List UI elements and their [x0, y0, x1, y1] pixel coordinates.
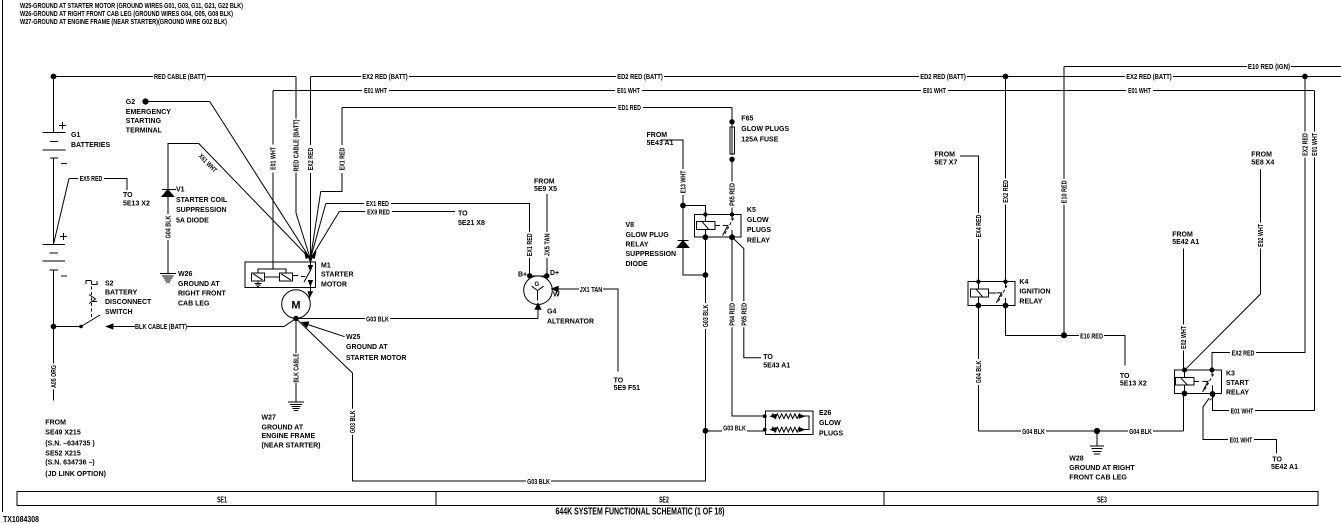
svg-text:TERMINAL: TERMINAL [126, 127, 163, 134]
wire V8 branch upper [682, 206, 684, 241]
svg-text:STARTER COIL: STARTER COIL [176, 197, 228, 204]
node alternator bottom [535, 303, 541, 309]
node D+ [545, 274, 549, 278]
glow plug series link [804, 416, 810, 429]
M1 solenoid coil 1 [252, 273, 265, 281]
M1 coil2 stub [293, 275, 298, 277]
svg-text:G04 BLK: G04 BLK [165, 216, 172, 239]
svg-text:RELAY: RELAY [1019, 298, 1042, 305]
fuse F65 body [730, 127, 735, 154]
glow plug element 2 [771, 427, 804, 432]
battery G1 cell1 [43, 132, 66, 158]
svg-text:TO: TO [123, 192, 133, 199]
svg-text:E10 RED: E10 RED [1080, 333, 1103, 340]
M1 motor arrow to circle [308, 292, 312, 297]
M1 switch arrow lower [308, 281, 312, 286]
wire G03 BLK diagonal down [296, 319, 353, 374]
svg-text:W25: W25 [346, 334, 361, 341]
label E01 WHT k3 b [1228, 435, 1254, 444]
svg-text:TX1084308: TX1084308 [3, 514, 39, 524]
relay K5 coil stub [715, 225, 720, 227]
wire K3 coil to G04 BLK [1182, 393, 1184, 431]
node W28 junction [1094, 428, 1099, 433]
svg-text:GLOW PLUG: GLOW PLUG [626, 232, 670, 239]
label EX2 RED right [1301, 132, 1310, 158]
svg-text:F65: F65 [741, 116, 753, 123]
wire E01 WHT drop to starter [272, 91, 274, 269]
svg-text:E01 WHT: E01 WHT [1312, 133, 1319, 156]
svg-text:V8: V8 [626, 222, 635, 229]
svg-text:G1: G1 [71, 132, 80, 139]
svg-text:FROM: FROM [534, 179, 555, 186]
svg-text:G04 BLK: G04 BLK [1022, 429, 1045, 436]
label G03 BLK starter [365, 314, 390, 323]
label G03 BLK k5 [701, 303, 710, 329]
diode V1 [162, 190, 176, 197]
wire G03 BLK from K5 [704, 237, 706, 481]
wire RED CABLE vertical [295, 77, 297, 214]
svg-text:E10 RED: E10 RED [1062, 180, 1069, 203]
ground W27 [288, 402, 304, 411]
svg-text:(NEAR STARTER): (NEAR STARTER) [262, 442, 321, 449]
node K5 coil bottom [703, 235, 708, 240]
switch S2 hook [86, 281, 97, 285]
wire RED CABLE diagonal [296, 213, 310, 259]
relay K5 switch bottom stub [731, 230, 733, 237]
svg-text:RELAY: RELAY [747, 238, 770, 245]
label X61 WHT diag [195, 150, 221, 176]
svg-text:G04 BLK: G04 BLK [1129, 429, 1152, 436]
relay K3 coil [1176, 378, 1195, 386]
diode V8 [677, 241, 689, 248]
wire into fuse [731, 122, 733, 155]
svg-text:DISCONNECT: DISCONNECT [105, 299, 152, 306]
wire EX9 RED diagonal [310, 212, 339, 260]
svg-text:TO: TO [1120, 373, 1130, 380]
svg-text:P64 RED: P64 RED [730, 303, 737, 326]
svg-text:M1: M1 [321, 263, 331, 270]
label G04 BLK left [1021, 427, 1046, 436]
wire ED1 RED rail [342, 107, 732, 109]
label EX2 RED k3 [1230, 348, 1256, 357]
svg-text:G03 BLK: G03 BLK [723, 426, 746, 433]
wire V1 to ground [167, 197, 169, 274]
wire G03 BLK bottom run [353, 373, 706, 481]
wire G04 BLK from K4 [978, 306, 1183, 432]
svg-text:P65 RED: P65 RED [730, 183, 737, 206]
wire P65 RED out [732, 237, 761, 358]
label G04 BLK k4 [974, 359, 983, 385]
wire E01 WHT lower from K3 [1203, 398, 1277, 454]
starter fan-in arrowheads cluster [312, 252, 317, 259]
svg-text:STARTING: STARTING [126, 118, 162, 125]
relay K5 coil [697, 221, 716, 229]
svg-text:EX2 RED: EX2 RED [1003, 180, 1010, 203]
label BLK CABLE w27 [292, 353, 301, 383]
label JX5 TAN alt [542, 232, 551, 258]
label E13 WHT [679, 169, 688, 195]
svg-text:START: START [1226, 380, 1250, 387]
svg-text:5E42 A1: 5E42 A1 [1271, 464, 1298, 471]
svg-text:ENGINE FRAME: ENGINE FRAME [262, 433, 316, 440]
wire E01 WHT right drop [1213, 91, 1315, 411]
svg-text:G03 BLK: G03 BLK [350, 410, 357, 433]
label EX2 RED k4 [1001, 178, 1010, 204]
wire V1 top [168, 144, 199, 190]
M1 solenoid coil 2 [279, 273, 292, 281]
glow plug element 1 [771, 414, 804, 419]
svg-text:E01 WHT: E01 WHT [1231, 408, 1254, 415]
svg-text:TO: TO [763, 354, 773, 361]
relay K4 switch top stub [1005, 282, 1007, 288]
label BLK CABLE (BATT) [135, 322, 187, 331]
svg-text:5A DIODE: 5A DIODE [176, 218, 209, 225]
relay K5 switch blade dashed [724, 218, 734, 236]
label ED2 RED (BATT) [616, 72, 664, 81]
node E10 RED junction [1061, 333, 1066, 338]
svg-text:JX5 TAN: JX5 TAN [544, 233, 551, 256]
wire EX2 RED drop to starter [309, 77, 311, 260]
switch S2 blade [81, 315, 100, 327]
svg-text:BLK CABLE: BLK CABLE [294, 353, 301, 382]
svg-text:G03 BLK: G03 BLK [703, 305, 710, 328]
svg-text:FROM: FROM [1251, 152, 1272, 159]
svg-text:K4: K4 [1019, 279, 1028, 286]
svg-text:EX5 RED: EX5 RED [80, 176, 103, 183]
svg-text:SE49 X215: SE49 X215 [45, 430, 81, 437]
battery G1 minus sign [61, 162, 67, 164]
wire E10 RED vertical [1063, 67, 1065, 336]
node fuse top [730, 120, 734, 124]
switch S2 linkage dashed [91, 281, 93, 318]
svg-text:E26: E26 [819, 410, 832, 417]
svg-text:RIGHT FRONT: RIGHT FRONT [178, 291, 227, 298]
label EX1 RED alt [525, 232, 534, 258]
svg-text:GLOW PLUGS: GLOW PLUGS [741, 126, 789, 133]
label JX1 TAN [579, 285, 603, 294]
M1 bracket feed [272, 262, 274, 269]
label E10 RED vert [1060, 179, 1069, 205]
node rail dot K3 [1303, 74, 1308, 79]
svg-text:E01 WHT: E01 WHT [1128, 88, 1151, 95]
wire X61 WHT diagonal [199, 144, 311, 260]
footer section box [17, 492, 1318, 506]
wire EX2 RED (BATT) rail [310, 76, 1341, 78]
svg-text:GROUND AT: GROUND AT [262, 425, 304, 432]
wire V8 branch lower [683, 248, 705, 276]
svg-text:EX2 RED (BATT): EX2 RED (BATT) [1126, 74, 1172, 81]
M1 switch arrow upper [308, 266, 312, 271]
starter motor M1 box [245, 262, 315, 287]
label G04 BLK right [1128, 427, 1153, 436]
svg-text:GROUND AT: GROUND AT [178, 281, 220, 288]
svg-text:E01 WHT: E01 WHT [923, 88, 946, 95]
relay K5 switch tick [723, 226, 728, 236]
node K4 switch bottom [1003, 303, 1008, 308]
svg-text:G4: G4 [547, 309, 556, 316]
relay K4 box [968, 282, 1015, 306]
label EX2 RED (BATT) [361, 72, 409, 81]
wire EX1 RED to alternator [326, 204, 530, 276]
label RED CABLE (BATT) [153, 72, 207, 81]
svg-text:E10 RED (IGN): E10 RED (IGN) [1248, 64, 1290, 71]
svg-text:5E8 X4: 5E8 X4 [1251, 160, 1274, 167]
svg-text:RELAY: RELAY [626, 242, 649, 249]
svg-text:S2: S2 [105, 280, 114, 287]
label E01 WHT vert [269, 145, 278, 173]
svg-text:EX1 RED: EX1 RED [340, 148, 347, 171]
svg-text:G03 BLK: G03 BLK [527, 479, 550, 486]
svg-text:EX2 RED: EX2 RED [1232, 351, 1255, 358]
svg-text:K5: K5 [747, 207, 756, 214]
svg-text:D+: D+ [550, 270, 559, 277]
wire alternator ground lead [537, 305, 539, 319]
label ED2 RED (BATT) 2 [919, 72, 967, 81]
wire P65 RED fuse to K5 [731, 159, 733, 214]
svg-text:5E9 X5: 5E9 X5 [534, 186, 557, 193]
svg-text:RED CABLE (BATT): RED CABLE (BATT) [294, 120, 301, 172]
label P65 RED out [739, 301, 748, 327]
label EX1 RED h [364, 199, 391, 208]
svg-text:TO: TO [1272, 457, 1282, 464]
node fuse bottom [730, 157, 734, 161]
svg-text:W27: W27 [262, 415, 277, 422]
label E10 RED [1079, 331, 1104, 340]
svg-text:E01 WHT: E01 WHT [271, 147, 278, 170]
wire EX2 RED right drop [1212, 77, 1305, 371]
svg-text:ALTERNATOR: ALTERNATOR [547, 318, 594, 325]
M1 switch upper stub [309, 262, 311, 267]
svg-text:SWITCH: SWITCH [105, 309, 133, 316]
label EX5 RED [78, 174, 104, 183]
svg-text:STARTER MOTOR: STARTER MOTOR [346, 355, 406, 362]
node K3 switch bottom [1210, 392, 1215, 397]
svg-text:GLOW: GLOW [747, 217, 769, 224]
wire E02 WHT from 5E42 [1183, 249, 1185, 371]
svg-text:FROM: FROM [647, 132, 668, 139]
svg-text:EMERGENCY: EMERGENCY [126, 109, 171, 116]
svg-text:E02 WHT: E02 WHT [1181, 326, 1188, 349]
ground W26 [160, 274, 176, 283]
svg-text:EX2 RED: EX2 RED [1303, 133, 1310, 156]
svg-text:E13 WHT: E13 WHT [681, 170, 688, 193]
svg-text:SE2: SE2 [659, 496, 669, 505]
svg-text:5E21 X8: 5E21 X8 [458, 220, 485, 227]
footer labels [3, 496, 1107, 524]
wire E02 WHT from 5E8 [1185, 169, 1261, 370]
label G03 BLK plug [722, 423, 747, 432]
M1 switch lower stub [309, 284, 311, 292]
relay K5 switch top stub [731, 215, 733, 221]
node G03 junction at glow plugs [703, 428, 708, 433]
label E01 WHT b [615, 86, 642, 95]
relay K4 coil [971, 289, 989, 297]
switch S2 chevron [89, 295, 97, 304]
node K3 top terminals [1183, 368, 1187, 372]
svg-text:GROUND AT RIGHT: GROUND AT RIGHT [1069, 465, 1135, 472]
svg-text:W: W [553, 292, 560, 299]
node K3 coil bottom [1182, 391, 1187, 396]
node K5 terminals top [704, 213, 707, 216]
svg-text:SE3: SE3 [1097, 496, 1107, 505]
svg-text:FROM: FROM [934, 152, 955, 159]
svg-text:P65 RED: P65 RED [741, 303, 748, 326]
svg-text:BLK CABLE (BATT): BLK CABLE (BATT) [135, 324, 187, 331]
svg-text:TO: TO [458, 211, 468, 218]
svg-text:MOTOR: MOTOR [321, 282, 347, 289]
svg-text:EX4 RED: EX4 RED [976, 215, 983, 238]
switch S2 pivot [80, 325, 83, 328]
wire A05 ORG drop [53, 327, 55, 401]
label EX9 RED h [365, 207, 392, 216]
alternator G and Y symbol [532, 286, 544, 300]
svg-text:B+: B+ [518, 272, 527, 279]
terminal G2 [143, 99, 148, 104]
svg-text:G: G [535, 282, 540, 288]
node K5 coil return junction [703, 273, 708, 278]
svg-text:644K SYSTEM FUNCTIONAL SCHEMAT: 644K SYSTEM FUNCTIONAL SCHEMATIC (1 OF 1… [556, 507, 725, 518]
wire G2 lead [146, 101, 210, 103]
M1 switch tick [301, 276, 305, 278]
svg-text:5E42 A1: 5E42 A1 [1172, 239, 1199, 246]
label E02 WHT right [1256, 223, 1265, 249]
wire JX5 TAN drop [546, 194, 548, 276]
wire E13 to K5 coil [683, 206, 705, 215]
svg-text:(S.N. –634735 ): (S.N. –634735 ) [45, 440, 94, 447]
wire battery interlink [53, 158, 55, 244]
wire battery bottom lead [53, 270, 55, 327]
relay K3 box [1174, 370, 1221, 393]
node W terminal [552, 286, 558, 291]
svg-text:G03 BLK: G03 BLK [366, 317, 389, 324]
starter M circle [282, 290, 311, 319]
node battery bottom junction [51, 324, 56, 329]
svg-text:STARTER: STARTER [321, 272, 354, 279]
wire EX1 RED diagonal to starter [310, 204, 325, 260]
svg-text:125A FUSE: 125A FUSE [741, 137, 778, 144]
battery G1 minus sign lower [61, 275, 67, 277]
node K4 terminals top [977, 280, 980, 283]
wire G03 BLK to glow plugs [705, 430, 765, 432]
relay K3 blade dash below box [1210, 396, 1215, 401]
relay K3 switch tick [1203, 381, 1208, 391]
label G04 BLK w26 [163, 214, 172, 240]
label E10 RED (IGN) [1247, 62, 1291, 71]
label ED1 RED [616, 103, 643, 112]
svg-text:M: M [291, 300, 300, 312]
glow plugs E26 box [765, 411, 813, 434]
node K5 switch bottom [730, 235, 735, 240]
BLK CABLE arrow contact [107, 324, 113, 329]
svg-text:E01 WHT: E01 WHT [1230, 437, 1253, 444]
wire E10 RED from K4 switch [1006, 306, 1125, 366]
label P64 RED [728, 301, 737, 327]
M1 internal ground [255, 281, 262, 287]
svg-text:PLUGS: PLUGS [819, 431, 843, 438]
node battery junction top [51, 74, 56, 79]
wire G2 diagonal to starter [210, 102, 311, 260]
svg-text:EX9 RED: EX9 RED [367, 210, 390, 217]
alternator G4 circle [524, 276, 553, 305]
svg-text:SUPPRESSION: SUPPRESSION [176, 207, 227, 214]
label E01 WHT c [921, 86, 948, 95]
wire EX9 RED [339, 211, 455, 213]
svg-text:GROUND AT: GROUND AT [346, 344, 388, 351]
wire FROM 5E43 A1 lead [661, 140, 683, 205]
label G03 BLK diag vert [348, 409, 357, 435]
svg-text:FROM: FROM [45, 419, 66, 426]
label E01 WHT right [1310, 132, 1319, 158]
label E01 WHT d [1126, 86, 1153, 95]
relay K4 switch bottom stub [1005, 298, 1007, 306]
wire E01 WHT rail [273, 90, 1315, 92]
svg-text:E02 WHT: E02 WHT [1258, 224, 1265, 247]
relay K3 coil leads [1184, 370, 1186, 393]
wire G03 BLK to alternator [296, 318, 538, 320]
svg-text:ED2 RED (BATT): ED2 RED (BATT) [617, 74, 663, 81]
svg-text:CAB LEG: CAB LEG [178, 301, 210, 308]
relay K3 switch top stub [1211, 370, 1213, 376]
svg-text:(S.N. 634736 –): (S.N. 634736 –) [45, 459, 94, 466]
svg-text:GLOW: GLOW [819, 420, 841, 427]
svg-text:5E7 X7: 5E7 X7 [934, 160, 957, 167]
relay K5 coil leads [704, 215, 706, 238]
svg-text:SE52 X215: SE52 X215 [45, 451, 81, 458]
svg-text:G04 BLK: G04 BLK [976, 361, 983, 384]
label E02 WHT k3 [1179, 325, 1188, 351]
svg-text:EX2 RED (BATT): EX2 RED (BATT) [362, 74, 408, 81]
relay K3 switch bottom stub [1212, 386, 1214, 394]
svg-text:BATTERIES: BATTERIES [71, 142, 110, 149]
wire RED CABLE (BATT) rail [53, 76, 296, 78]
svg-text:JX1 TAN: JX1 TAN [580, 287, 603, 294]
wire BLK CABLE to W27 ground [295, 319, 297, 402]
relay K5 box [694, 215, 741, 238]
svg-text:(JD LINK OPTION): (JD LINK OPTION) [45, 471, 106, 478]
W25 pointer arrow [302, 322, 345, 337]
label P65 RED fuse [728, 182, 737, 208]
relay K4 coil stub [989, 292, 996, 294]
wire BLK CABLE (BATT) [107, 319, 296, 327]
svg-text:SE1: SE1 [217, 496, 227, 505]
svg-text:FRONT CAB LEG: FRONT CAB LEG [1069, 475, 1127, 482]
svg-text:SUPPRESSION: SUPPRESSION [626, 251, 677, 258]
label A05 ORG [49, 364, 58, 390]
node E13 WHT junction [681, 203, 686, 208]
svg-text:K3: K3 [1226, 370, 1235, 377]
svg-text:V1: V1 [176, 187, 185, 194]
ground W28 [1090, 431, 1104, 454]
label G03 BLK bottom [526, 477, 551, 486]
svg-text:W28: W28 [1069, 455, 1084, 462]
wire to switch S2 [54, 326, 82, 328]
M1 coil interconnect [265, 276, 280, 278]
relay K4 coil leads [977, 282, 979, 306]
label E01 WHT a [362, 86, 389, 95]
node starter ground junction [294, 316, 298, 320]
battery G1 plus sign lower [60, 233, 67, 240]
wire EX2 RED drop to K4 [1005, 77, 1007, 282]
wire JX1 TAN [552, 289, 618, 371]
alternator top bar [530, 275, 547, 277]
svg-text:ED2 RED (BATT): ED2 RED (BATT) [920, 74, 966, 81]
page border left [2, 0, 4, 512]
svg-text:DIODE: DIODE [626, 261, 649, 268]
svg-text:PLUGS: PLUGS [747, 227, 771, 234]
starter fan-in arrowhead [308, 257, 312, 263]
svg-text:EX1 RED: EX1 RED [366, 201, 389, 208]
label EX2 RED (BATT) 2 [1125, 72, 1173, 81]
